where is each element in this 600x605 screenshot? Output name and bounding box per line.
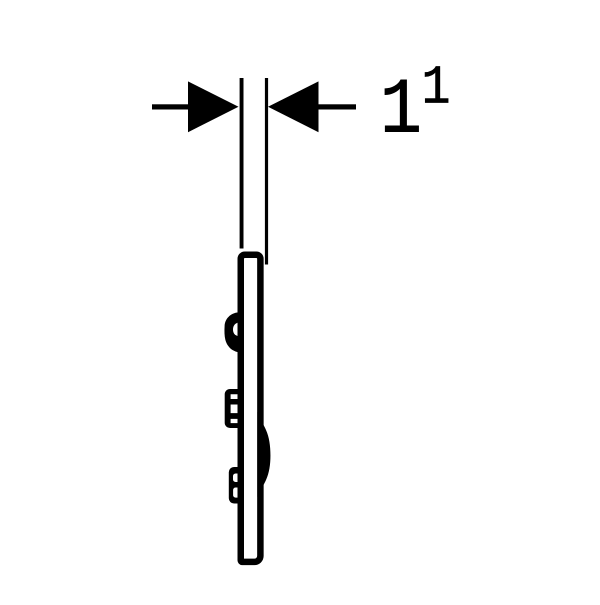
svg-text:1: 1 <box>380 69 422 156</box>
dimension arrow left <box>188 81 239 132</box>
dimension text 1 superscript 1 <box>380 69 422 156</box>
extension line right <box>265 78 268 265</box>
dimension leader line left <box>152 104 189 109</box>
extension line left <box>240 78 244 249</box>
svg-text:1: 1 <box>422 58 451 120</box>
middle clip <box>225 389 241 428</box>
dimension leader line right <box>319 104 357 109</box>
bottom clip <box>229 467 241 504</box>
dimension arrow right <box>268 81 319 132</box>
top hook clip <box>224 312 238 352</box>
plate outline <box>241 255 261 562</box>
plate front bulge <box>257 412 270 497</box>
